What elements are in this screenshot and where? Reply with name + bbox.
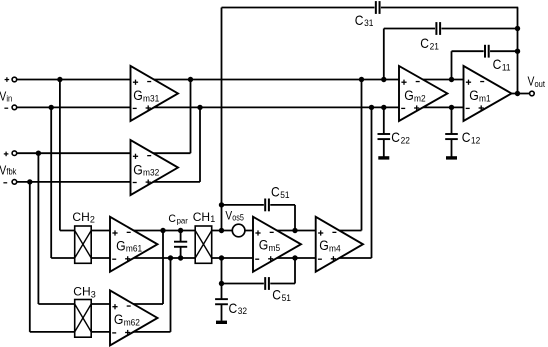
- svg-text:3: 3: [91, 290, 96, 300]
- wire: [130, 257, 195, 259]
- svg-text:1: 1: [210, 214, 215, 224]
- label C11: [493, 56, 511, 72]
- junction: [449, 105, 454, 110]
- wire: [151, 152, 191, 154]
- op-amp Gm1: [464, 66, 512, 121]
- svg-text:G: G: [404, 88, 414, 104]
- polarity -: [4, 107, 8, 109]
- svg-text:C: C: [493, 56, 502, 72]
- svg-text:os5: os5: [232, 213, 244, 223]
- junction: [49, 105, 54, 110]
- capacitor C51 lower: [264, 277, 270, 291]
- wire: [517, 8, 519, 94]
- wire: [190, 80, 192, 154]
- wire: [336, 257, 372, 259]
- svg-text:C: C: [420, 35, 429, 51]
- junction: [381, 77, 386, 82]
- op-amp Gm31: [131, 66, 179, 121]
- wire: [221, 8, 223, 231]
- terminal Vin-: [12, 105, 17, 110]
- junction: [292, 255, 297, 260]
- svg-text:CH: CH: [73, 284, 90, 298]
- label C12: [462, 129, 481, 145]
- wire: [130, 331, 171, 333]
- svg-text:in: in: [6, 93, 12, 104]
- wire: [383, 107, 385, 156]
- junction: [515, 49, 520, 54]
- junction: [178, 228, 183, 233]
- junction: [178, 255, 183, 260]
- label CH1: [193, 210, 216, 224]
- chopper CH1: [195, 226, 212, 263]
- wire: [38, 303, 110, 305]
- svg-text:m32: m32: [143, 167, 159, 178]
- svg-text:V: V: [528, 76, 535, 89]
- capacitor Cpar: [173, 242, 188, 247]
- junction: [160, 228, 165, 233]
- wire: [294, 258, 296, 284]
- capacitor C32: [214, 299, 229, 304]
- svg-text:11: 11: [502, 62, 511, 73]
- label C31: [355, 12, 374, 28]
- junction: [36, 151, 41, 156]
- svg-text:C: C: [391, 129, 400, 145]
- terminal Vout: [530, 91, 535, 96]
- wire: [452, 50, 518, 52]
- wire: [336, 230, 362, 232]
- wire: [384, 28, 518, 30]
- wire: [383, 29, 385, 80]
- wire: [212, 230, 253, 232]
- svg-text:51: 51: [280, 190, 289, 201]
- wire: [17, 181, 131, 183]
- op-amp Gm32: [131, 140, 179, 195]
- wire: [451, 51, 453, 79]
- wire: [451, 107, 453, 156]
- svg-text:m1: m1: [479, 93, 491, 104]
- svg-text:C: C: [229, 300, 238, 316]
- wire: [51, 257, 110, 259]
- wire: [130, 230, 195, 232]
- terminal Vfbk+: [12, 151, 17, 156]
- ground: [378, 156, 389, 159]
- wire: [162, 231, 164, 305]
- label C32: [229, 300, 248, 316]
- wire: [419, 79, 464, 81]
- wire: [222, 283, 296, 285]
- svg-text:C: C: [355, 12, 364, 28]
- wire: [37, 153, 39, 304]
- junction: [515, 26, 520, 31]
- wire: [361, 80, 363, 231]
- junction: [359, 77, 364, 82]
- junction: [27, 179, 32, 184]
- svg-text:par: par: [177, 216, 189, 225]
- label Vfbk: [0, 164, 17, 177]
- wire: [221, 258, 223, 321]
- junction: [219, 255, 224, 260]
- wire: [222, 204, 296, 206]
- junction: [292, 228, 297, 233]
- svg-text:21: 21: [430, 41, 439, 52]
- svg-text:m4: m4: [329, 243, 341, 254]
- label C51 upper: [271, 184, 290, 200]
- junction: [515, 91, 520, 96]
- junction: [219, 228, 224, 233]
- svg-text:C: C: [462, 129, 471, 145]
- label Vin: [0, 91, 13, 104]
- svg-text:12: 12: [471, 135, 480, 146]
- svg-text:C: C: [271, 184, 280, 200]
- svg-text:51: 51: [282, 292, 291, 303]
- wire: [17, 152, 131, 154]
- svg-text:out: out: [534, 78, 545, 89]
- svg-text:22: 22: [401, 135, 410, 146]
- svg-text:32: 32: [238, 306, 247, 317]
- svg-text:CH: CH: [193, 210, 210, 224]
- svg-text:G: G: [259, 237, 269, 253]
- capacitor C11: [484, 44, 490, 58]
- label C21: [420, 35, 439, 51]
- wire: [50, 107, 52, 258]
- op-amp Gm4: [316, 217, 363, 272]
- wire: [294, 205, 296, 231]
- wire: [273, 257, 316, 259]
- label CH3: [73, 284, 96, 299]
- wire: [508, 93, 530, 95]
- svg-text:2: 2: [90, 215, 95, 225]
- junction: [219, 281, 224, 286]
- junction: [381, 105, 386, 110]
- capacitor C21: [435, 22, 441, 36]
- wire: [17, 79, 131, 81]
- ground: [216, 321, 227, 324]
- junction: [188, 77, 193, 82]
- junction: [219, 202, 224, 207]
- junction: [57, 77, 62, 82]
- wire: [30, 331, 110, 333]
- svg-text:C: C: [272, 287, 281, 303]
- junction: [197, 105, 202, 110]
- wire: [199, 107, 201, 181]
- wire: [222, 7, 519, 9]
- svg-text:fbk: fbk: [6, 166, 17, 177]
- polarity +: [5, 79, 10, 81]
- polarity -: [3, 182, 7, 184]
- capacitor C12: [444, 134, 459, 139]
- svg-text:m62: m62: [124, 317, 140, 328]
- wire: [170, 258, 172, 332]
- terminal Vin+: [12, 77, 17, 82]
- junction: [369, 105, 374, 110]
- svg-text:31: 31: [364, 18, 373, 29]
- label C22: [391, 129, 410, 145]
- op-amp Gm61: [110, 217, 158, 272]
- wire: [180, 231, 182, 259]
- svg-text:m31: m31: [143, 93, 159, 104]
- offset source Vos5: [232, 224, 245, 237]
- svg-text:G: G: [114, 312, 124, 328]
- label CH2: [72, 210, 95, 225]
- svg-text:CH: CH: [72, 210, 89, 224]
- label C51 lower: [272, 287, 291, 303]
- polarity +: [4, 153, 9, 155]
- wire: [151, 106, 400, 108]
- junction: [168, 255, 173, 260]
- svg-text:G: G: [133, 88, 143, 104]
- wire: [29, 182, 31, 332]
- wire: [419, 106, 464, 108]
- wire: [151, 181, 201, 183]
- wire: [371, 107, 373, 258]
- op-amp Gm2: [399, 66, 447, 121]
- junction: [449, 77, 454, 82]
- wire: [273, 230, 316, 232]
- chopper CH3: [75, 300, 92, 338]
- wire: [59, 80, 61, 231]
- label Cpar: [168, 213, 188, 226]
- wire: [151, 79, 400, 81]
- wire: [17, 106, 131, 108]
- capacitor C51 upper: [264, 198, 270, 212]
- capacitor C31: [375, 1, 381, 15]
- svg-text:m5: m5: [269, 242, 281, 253]
- wire: [60, 230, 110, 232]
- wire: [130, 303, 163, 305]
- terminal Vfbk-: [12, 180, 17, 185]
- chopper CH2: [75, 226, 92, 263]
- ground: [446, 156, 457, 159]
- svg-text:G: G: [469, 88, 479, 104]
- wire: [212, 257, 253, 259]
- label Vos5: [225, 209, 244, 222]
- label Vout: [528, 76, 546, 89]
- capacitor C22: [377, 134, 392, 139]
- svg-text:G: G: [116, 238, 126, 254]
- op-amp Gm5: [253, 217, 301, 272]
- svg-text:C: C: [168, 213, 176, 225]
- svg-text:G: G: [319, 238, 329, 254]
- svg-text:G: G: [133, 162, 143, 178]
- op-amp Gm62: [110, 290, 158, 345]
- svg-text:m61: m61: [126, 243, 142, 254]
- svg-text:m2: m2: [414, 93, 426, 104]
